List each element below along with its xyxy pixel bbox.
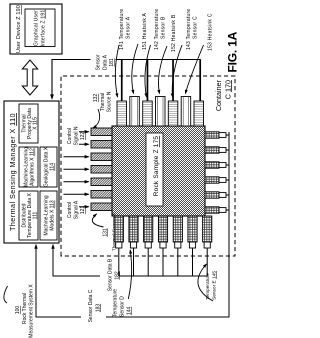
node 142 Temperature Sensor B label — [145, 9, 167, 97]
svg-text:Thermal: Thermal — [100, 93, 106, 111]
wire sensor data B path to manager — [53, 245, 207, 276]
node 152 Heatsink B label — [158, 14, 177, 93]
node 141 Temperature Sensor A label — [115, 9, 131, 97]
svg-text:Sensor A: Sensor A — [126, 16, 132, 39]
wire left pin leads to sensor data B bus — [119, 248, 207, 276]
svg-text:Source N: Source N — [107, 91, 113, 112]
svg-text:Sensor E 145: Sensor E 145 — [212, 271, 218, 300]
svg-text:143 Temperature: 143 Temperature — [186, 9, 192, 50]
svg-text:100: 100 — [15, 306, 21, 315]
svg-text:144: 144 — [127, 306, 133, 315]
svg-text:141 Temperature: 141 Temperature — [119, 9, 125, 50]
svg-text:Thermal Sensing Manager X 110: Thermal Sensing Manager X 110 — [8, 113, 17, 231]
svg-text:Sensor Data B: Sensor Data B — [108, 258, 114, 291]
wire double arrow between manager and user device — [22, 60, 37, 95]
svg-text:Rock Thermal: Rock Thermal — [22, 293, 28, 324]
svg-text:User Device Z 190: User Device Z 190 — [16, 5, 22, 53]
svg-text:C 170: C 170 — [223, 80, 232, 99]
node Thermal Property Data X 115 — [19, 104, 39, 143]
node 143 Temperature Sensor C label — [172, 9, 198, 97]
node Machine-Learning Models X 113 — [40, 191, 57, 240]
node 132 Thermal Source N label — [93, 91, 113, 128]
wire control signal arrows into thermal sources — [64, 132, 89, 207]
svg-text:111: 111 — [33, 211, 39, 219]
svg-text:Signal A: Signal A — [74, 200, 80, 219]
svg-text:142 Temperature: 142 Temperature — [154, 9, 160, 50]
svg-text:131: 131 — [103, 228, 109, 237]
component left pins (temperature sensors D..) — [114, 216, 212, 248]
component thermal source pins (top, hatched) — [91, 128, 112, 211]
wire sensor leads to sensor data A bus — [122, 60, 200, 102]
node Geological Data X 114 — [40, 146, 57, 187]
wire sensor data C path to manager — [36, 132, 229, 317]
svg-text:153 Heatsink C: 153 Heatsink C — [208, 13, 214, 51]
node 151 Heatsink A label — [132, 12, 148, 93]
node Distributed Temperature Data X 111 — [19, 191, 39, 240]
svg-text:Sensor B: Sensor B — [161, 16, 167, 39]
svg-text:181: 181 — [109, 58, 115, 67]
wire sensor data A path to manager — [52, 60, 201, 99]
node Sensor Data A 181 label — [96, 54, 116, 70]
node Machine-Learning Algorithms X 112 — [19, 147, 38, 187]
node Thermal Sensing Manager X 110 box — [4, 101, 59, 243]
node Container C 170 (dashed box) — [61, 76, 235, 256]
node Control Signal N 122 label — [67, 126, 86, 145]
svg-text:Rock Sample Z 175: Rock Sample Z 175 — [153, 136, 160, 197]
svg-text:Graphical User: Graphical User — [34, 10, 40, 46]
svg-text:Data A: Data A — [103, 54, 109, 70]
svg-text:182: 182 — [115, 271, 121, 280]
node Control Signal A 121 label — [67, 200, 86, 219]
node User Device Z 190 box — [10, 4, 62, 54]
svg-text:Sensor Data C: Sensor Data C — [88, 289, 94, 322]
svg-text:121: 121 — [80, 206, 86, 215]
svg-text:Machine-Learning: Machine-Learning — [43, 195, 49, 235]
node 153 Heatsink C label — [186, 13, 214, 93]
svg-text:Models X 113: Models X 113 — [50, 200, 56, 230]
svg-text:132: 132 — [93, 94, 99, 103]
component bottom pins (temperature sensors E..) — [205, 132, 226, 213]
svg-text:122: 122 — [80, 132, 86, 141]
svg-text:152 Heatsink B: 152 Heatsink B — [171, 14, 177, 52]
node Temperature Sensor D 144 label — [113, 250, 133, 317]
svg-text:114: 114 — [50, 163, 56, 171]
node 131 Thermal Source A label — [92, 212, 117, 251]
component Rock Sample Z 175 (chip) — [112, 126, 205, 216]
svg-text:183: 183 — [96, 304, 102, 313]
svg-text:151 Heatsink A: 151 Heatsink A — [142, 12, 148, 50]
component temperature sensors (right, ribbed) — [117, 101, 204, 126]
svg-text:Sensor: Sensor — [96, 54, 102, 70]
svg-text:Sensor D: Sensor D — [120, 296, 126, 317]
svg-text:Container: Container — [214, 79, 223, 111]
node Rock Thermal Measurement System X 100 label — [4, 284, 35, 338]
wire bottom pin leads to sensor data C rail — [226, 135, 229, 210]
node Sensor Data C 183 label — [88, 289, 102, 322]
svg-text:Temperature: Temperature — [113, 289, 119, 317]
svg-text:Interface Z 191: Interface Z 191 — [41, 10, 47, 47]
node Sensor Data B 182 label — [108, 258, 121, 291]
svg-text:Sensor C: Sensor C — [193, 16, 199, 39]
svg-text:Signal N: Signal N — [74, 126, 80, 145]
svg-text:Algorithms X 112: Algorithms X 112 — [30, 148, 36, 186]
component heatsinks (right, white) — [130, 97, 191, 127]
svg-text:Geological Data X: Geological Data X — [43, 146, 49, 187]
svg-text:X 115: X 115 — [33, 117, 39, 130]
svg-text:Measurement System X: Measurement System X — [29, 284, 35, 338]
svg-text:Machine-Learning: Machine-Learning — [23, 147, 29, 187]
node Temperature Sensor E 145 label — [198, 264, 218, 301]
svg-text:FIG. 1A: FIG. 1A — [225, 31, 239, 72]
node Graphical User Interface Z 191 — [25, 9, 55, 47]
svg-text:Control: Control — [67, 128, 73, 144]
svg-text:Control: Control — [67, 202, 73, 218]
